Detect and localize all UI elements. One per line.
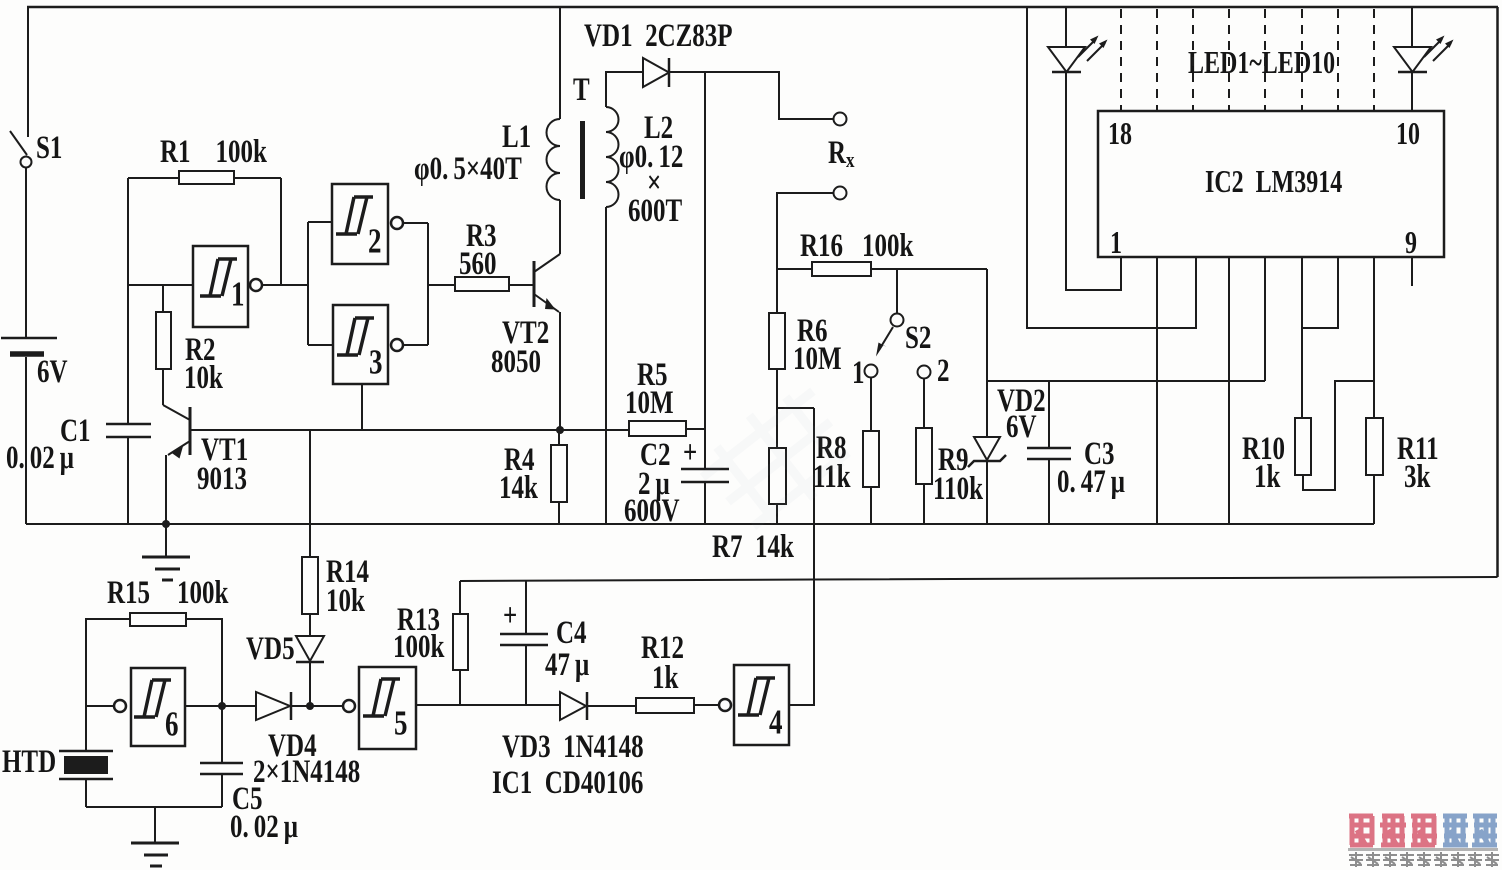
svg-text:VD1 2CZ83P: VD1 2CZ83P [584,18,733,54]
wire L2 bottom to ground rail [605,207,607,524]
wire R8 bottom to rail [870,487,872,524]
wire battery to ground rail corner [25,357,27,524]
svg-text:9: 9 [1405,226,1417,261]
svg-text:110k: 110k [933,471,984,507]
node VT2 emitter / R4 / base rail junction [556,426,564,434]
label C2 value 2u [638,466,670,502]
op-amp U6 inverter 6 box [131,668,185,746]
inverter 1 output bubble [250,279,262,291]
wire top supply rail [27,6,1498,9]
wire VD4 to inverter5 [291,705,343,707]
pin 18 label [1108,117,1132,152]
label R12 [641,630,684,666]
node C5/VD4 junction [218,702,226,710]
diode VD4 [256,692,291,720]
wire R1 right to feedback column [234,177,281,179]
wire inverter3 bottom to base rail [361,384,363,430]
resistor R11 [1366,418,1383,475]
resistor R13 [453,614,468,670]
label R12 value 1k [652,660,679,696]
wire R2 bottom to VT1 collector [162,369,164,405]
label R6 value 10M [793,341,842,377]
wire VT2 collector to L1 [559,200,561,254]
wire R6 bottom to R7 [776,369,778,448]
label R8 value 11k [813,459,851,495]
battery 6V [1,338,57,354]
switch S2 common node [891,314,904,327]
wire inverter2/3 input column [308,222,333,345]
label inverter 1 subscript [231,274,244,313]
svg-text:Rx: Rx [828,135,855,173]
wire R15 right column [186,619,222,763]
node S2 position 2 [918,366,931,379]
wire inverter1 output to inverter2/3 inputs [262,284,308,286]
wire LED10 cathode to pin10 [1411,72,1413,111]
svg-text:R16: R16 [800,228,843,264]
IC2 LM3914 box [1098,111,1444,257]
svg-text:L1: L1 [502,119,531,155]
inverter 2 output bubble [391,217,403,229]
watermark underline [1348,848,1498,851]
pin 1 label [1110,226,1122,261]
node Rx lower terminal [834,187,847,200]
wire R1 left column top [128,177,179,179]
wire pin6 column to R10 [1301,257,1303,418]
svg-text:2: 2 [368,221,381,260]
inverter 3 output bubble [391,339,403,351]
svg-text:+: + [503,598,517,634]
svg-text:10k: 10k [184,360,224,396]
label S1 [36,130,62,166]
svg-text:2: 2 [937,353,950,389]
label inverter 6 subscript [165,704,178,743]
svg-text:LED1~LED10: LED1~LED10 [1188,46,1335,81]
svg-text:6V: 6V [37,354,68,390]
label R11 [1397,431,1439,467]
wire pin8 column to R11 [1373,257,1375,418]
buzzer HTD [59,751,113,779]
resistor R1 [179,171,234,184]
svg-text:4: 4 [769,702,783,741]
resistor R15 [130,613,186,626]
svg-text:2×1N4148: 2×1N4148 [253,754,360,790]
label VT1 [201,432,248,468]
svg-text:φ0. 5×40T: φ0. 5×40T [414,151,522,187]
transformer T core [580,121,585,199]
label R14 value 10k [326,583,366,619]
label C4 value 47u [545,647,590,683]
wire dashed LED3 line [1156,9,1158,111]
wire C1 bottom to ground rail [127,437,129,524]
svg-text:10M: 10M [625,385,674,421]
op-amp U4 inverter 4 box [734,665,789,745]
diode VD5 [296,636,324,662]
ground below VT1 [142,524,190,580]
inverter 2 hysteresis symbol [336,197,373,234]
svg-text:VD5: VD5 [246,631,295,667]
inverter 1 hysteresis symbol [200,259,237,296]
svg-text:R15: R15 [107,575,150,611]
wire R11 bottom to ground rail [1373,475,1375,524]
inverter 6 output bubble [114,700,126,712]
wire R14 column from base rail through rail [309,430,311,557]
node S2 position 1 [865,365,878,378]
label R8 [816,430,847,466]
op-amp U1 inverter 1 box [193,246,248,327]
wire VD5 to bottom node [309,662,311,706]
label C4 [556,615,587,651]
label position 1 [852,355,865,391]
svg-text:560: 560 [459,246,496,282]
wire supply to transformer primary [559,7,561,119]
svg-text:6: 6 [165,704,178,743]
label VD1 2CZ83P [584,18,733,54]
resistor R9 [916,428,932,484]
svg-text:1: 1 [852,355,865,391]
inductor L1 primary winding [547,119,561,200]
watermark logo yidituo peixun [1349,816,1497,845]
svg-text:600T: 600T [628,193,682,229]
label R4 [504,442,535,478]
label R7 14k [712,529,795,565]
svg-text:R7 14k: R7 14k [712,529,795,565]
faint scan ghost watermark [690,375,865,544]
label R1 100k [160,134,268,170]
inductor L2 secondary winding [606,107,619,207]
wire inverter5 output row [416,704,560,706]
inverter 3 hysteresis symbol [337,318,374,355]
label L1 [502,119,531,155]
wire L1 bottom to VT2 collector [559,200,561,254]
wire bubble6 to left column [86,705,114,707]
wire dashed LED7 line [1301,9,1303,111]
label R2 [185,332,216,368]
wire VD1 cathode to Rx upper [669,72,833,119]
pin 9 label [1405,226,1417,261]
inverter 4 hysteresis symbol [738,678,775,715]
wire dashed LED6 line [1264,9,1266,111]
LED LED1 [1048,36,1108,73]
label C2 voltage 600V [624,493,680,529]
wire dashed LED5 line [1228,9,1230,111]
capacitor C2 [681,469,729,524]
wire supply drop to pin3 column [1027,7,1196,328]
svg-text:3: 3 [369,342,382,381]
label C4 plus [503,598,517,634]
label S2 [905,320,931,356]
label R13 [397,602,440,638]
wire bottom-right supply line to R13/C4 rail [460,577,1498,581]
wire VD1 node down to C2 [704,72,706,469]
wire C5 bottom [221,774,223,807]
wire HTD bottom [85,779,87,807]
wire pin5 column to reference node [1264,257,1266,381]
label LED1~LED10 [1188,46,1335,81]
wire R13 bottom [459,670,461,705]
label IC1 CD40106 [492,765,643,801]
wire dashed LED4 line [1192,9,1194,111]
label VD4 [268,728,317,764]
pin 10 label [1396,117,1420,152]
svg-text:1k: 1k [1254,459,1281,495]
svg-text:10k: 10k [326,583,366,619]
resistor R2 [156,312,171,369]
svg-text:10M: 10M [793,341,842,377]
wire S1 to battery [25,167,27,337]
label VD2 [997,383,1046,419]
label R6 [797,313,828,349]
label R3 [466,218,497,254]
svg-text:47 μ: 47 μ [545,647,590,683]
wire R9 bottom to rail [923,484,925,524]
svg-text:100k: 100k [177,575,229,611]
wire inverter2/3 output column [403,223,428,345]
svg-text:S1: S1 [36,130,62,166]
label L2 turns 600T [628,193,682,229]
wire ground rail [26,523,1374,525]
svg-text:9013: 9013 [197,461,247,497]
capacitor C5 [200,763,243,774]
label L2 wire gauge [619,139,683,175]
diode VD3 [560,692,587,720]
label inverter 3 subscript [369,342,382,381]
wire R16 left stub [777,268,812,270]
label inverter 4 subscript [769,702,783,741]
label VD4 type 2x1N4148 [253,754,360,790]
svg-text:+: + [683,435,697,471]
label C5 value 0.02u [230,809,298,845]
switch S1 [10,131,32,168]
label R16 100k [800,228,914,264]
label C2 [640,437,671,473]
resistor R5 [629,421,686,436]
svg-text:3k: 3k [1404,459,1431,495]
svg-text:100k: 100k [862,228,914,264]
wire R16 right to VD2 column [871,268,987,270]
wire VD2 bottom to rail [986,461,988,524]
svg-text:0. 02 μ: 0. 02 μ [230,809,298,845]
label R3 value 560 [459,246,496,282]
switch S2 common wire [896,269,898,313]
wire VD3 to R12 [587,705,636,707]
svg-text:14k: 14k [499,470,539,506]
label R10 value 1k [1254,459,1281,495]
label R2 value 10k [184,360,224,396]
wire inverter6 input to node [185,705,256,707]
label R11 value 3k [1404,459,1431,495]
watermark tagline RF and antenna design experts [1349,852,1499,867]
wire dashed LED2 line [1120,9,1122,111]
label HTD [2,744,56,780]
wire Rx lower to R16 row [777,193,833,269]
label inverter 2 subscript [368,221,381,260]
wire S1 upper feed [27,7,29,137]
wire R10 bottom to R11 top link [1303,381,1374,490]
wire VT1 base rail y430 [190,429,629,431]
wire VT1 emitter to ground rail [165,455,167,524]
wire R1 feedback column down to inverter1 output [280,178,282,285]
capacitor C4 [500,580,548,705]
label L2 [644,110,673,146]
wire R14 to VD5 [309,614,311,636]
resistor R14 [302,557,318,614]
svg-text:IC2 LM3914: IC2 LM3914 [1205,165,1342,200]
wire feedback column down to inverter4 output [789,408,814,705]
label VD2 voltage 6V [1006,409,1037,445]
wire R7 bottom to ground rail [776,504,778,524]
label T transformer [573,72,590,108]
wire R15 left column [86,619,130,751]
label R5 [637,357,668,393]
wire R4 top [558,430,560,445]
wire pin9 stub [1411,257,1413,286]
wire VD2 column [986,269,988,437]
label C1 value 0.02u [6,440,74,476]
wire S2-2 to R9 [923,379,925,428]
transistor VT2 8050 [534,254,560,312]
op-amp U2 inverter 2 box [332,184,388,264]
label VT2 type 8050 [491,344,541,380]
wire dashed LED9 line [1373,9,1375,111]
diode VD1 2CZ83P [643,58,669,87]
wire R5 right to C2 column [686,428,705,430]
svg-text:1k: 1k [652,660,679,696]
wire R12 to inverter4 [694,704,718,706]
inverter 6 hysteresis symbol [134,680,171,717]
svg-text:1: 1 [231,274,244,313]
svg-text:8050: 8050 [491,344,541,380]
wire right supply side [1496,7,1499,577]
LED10 anode wire from supply [1411,7,1413,47]
resistor R16 [812,262,871,276]
wire VT2 emitter down [559,312,561,430]
wire pin2 column to ground rail [1156,257,1158,524]
svg-text:0. 02 μ: 0. 02 μ [6,440,74,476]
wire R6/R7 junction to feedback column [777,407,814,409]
op-amp U5 inverter 5 box [359,667,416,749]
resistor R4 [551,445,567,502]
wire inverter1 input [128,284,193,286]
label R9 [938,442,969,478]
svg-text:6V: 6V [1006,409,1037,445]
svg-text:0. 47 μ: 0. 47 μ [1057,464,1125,500]
label VT1 type 9013 [197,461,247,497]
wire S2-1 to R8 [870,378,872,431]
label C3 [1084,436,1115,472]
wire pin6-pin7 bridge [1302,257,1338,328]
label C1 [60,413,91,449]
switch S2 blade with arrow [876,327,893,357]
svg-text:IC1 CD40106: IC1 CD40106 [492,765,643,801]
svg-text:C4: C4 [556,615,587,651]
wire reference node y381 [987,380,1265,382]
label C2 plus [683,435,697,471]
inverter 5 hysteresis symbol [363,679,400,716]
label VT2 [502,315,549,351]
label position 2 [937,353,950,389]
capacitor C1 [106,424,151,437]
label VD3 1N4148 [502,729,644,765]
label R13 value 100k [393,629,445,665]
svg-text:10: 10 [1396,117,1420,152]
wire LED1 cathode to pin1 [1066,72,1121,290]
wire output column to R3 [428,284,455,286]
svg-text:5: 5 [394,703,407,742]
wire R2 top tee [162,285,164,312]
label R5 value 10M [625,385,674,421]
node VT1 emitter ground junction [162,520,170,528]
label C5 [232,781,263,817]
op-amp U3 inverter 3 box [333,305,388,384]
wire R4 bottom to rail [558,502,560,524]
svg-text:18: 18 [1108,117,1132,152]
wire bottom return [86,806,222,808]
resistor R6 [769,269,785,369]
label L2 times [647,165,661,201]
ground bottom section [131,807,179,866]
inverter 5 input bubble [343,700,355,712]
wire R13 column [459,581,461,614]
svg-text:600V: 600V [624,493,680,529]
label Rx [828,135,855,173]
label R10 [1242,431,1285,467]
svg-text:VD3 1N4148: VD3 1N4148 [502,729,644,765]
label R9 value 110k [933,471,984,507]
label IC2 LM3914 [1205,165,1342,200]
label 6V [37,354,68,390]
label VD5 [246,631,295,667]
wire left column x128 down to C1 [127,178,129,424]
inverter 4 input bubble [719,699,731,711]
wire dashed LED8 line [1337,9,1339,111]
zener diode VD2 [968,437,1006,467]
label C3 value 0.47u [1057,464,1125,500]
resistor R10 [1295,418,1311,475]
label R4 value 14k [499,470,539,506]
svg-text:T: T [573,72,590,108]
wire pin4 column to ground rail [1228,257,1230,524]
label R14 [326,554,369,590]
label R15 100k [107,575,229,611]
svg-text:S2: S2 [905,320,931,356]
svg-text:1: 1 [1110,226,1122,261]
resistor R12 [636,698,694,713]
transistor VT1 9013 [163,405,190,459]
node Rx upper terminal [834,113,847,126]
svg-text:100k: 100k [393,629,445,665]
capacitor C3 [1027,381,1071,524]
wire R3 to VT2 base [509,284,534,286]
LED1 anode wire from supply [1065,7,1067,47]
wire L2 top to VD1 [606,72,643,107]
node VD5 junction [306,702,314,710]
resistor R7 [769,448,786,504]
svg-text:R1 100k: R1 100k [160,134,268,170]
resistor R8 [863,431,879,487]
LED LED10 [1394,36,1454,73]
label L1 winding spec [414,151,522,187]
label inverter 5 subscript [394,703,407,742]
resistor R3 [455,277,509,291]
svg-text:HTD: HTD [2,744,56,780]
